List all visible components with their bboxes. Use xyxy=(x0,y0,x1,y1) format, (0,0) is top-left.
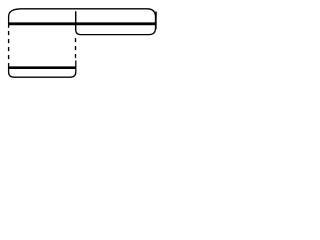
node A: wrapped-box solid outline (top row) xyxy=(9,9,156,35)
node B: inner divider bar xyxy=(75,11,77,30)
node C: wrapped-box solid outline (bottom row) xyxy=(9,61,76,78)
wire: dashed continuation (right) xyxy=(75,38,77,61)
node B2: right end-cap bar xyxy=(155,12,157,30)
wire: row-2 thick conductor xyxy=(8,66,76,69)
wire: row-1 thick conductor xyxy=(8,22,156,25)
wire: dashed continuation (left) xyxy=(8,29,10,64)
